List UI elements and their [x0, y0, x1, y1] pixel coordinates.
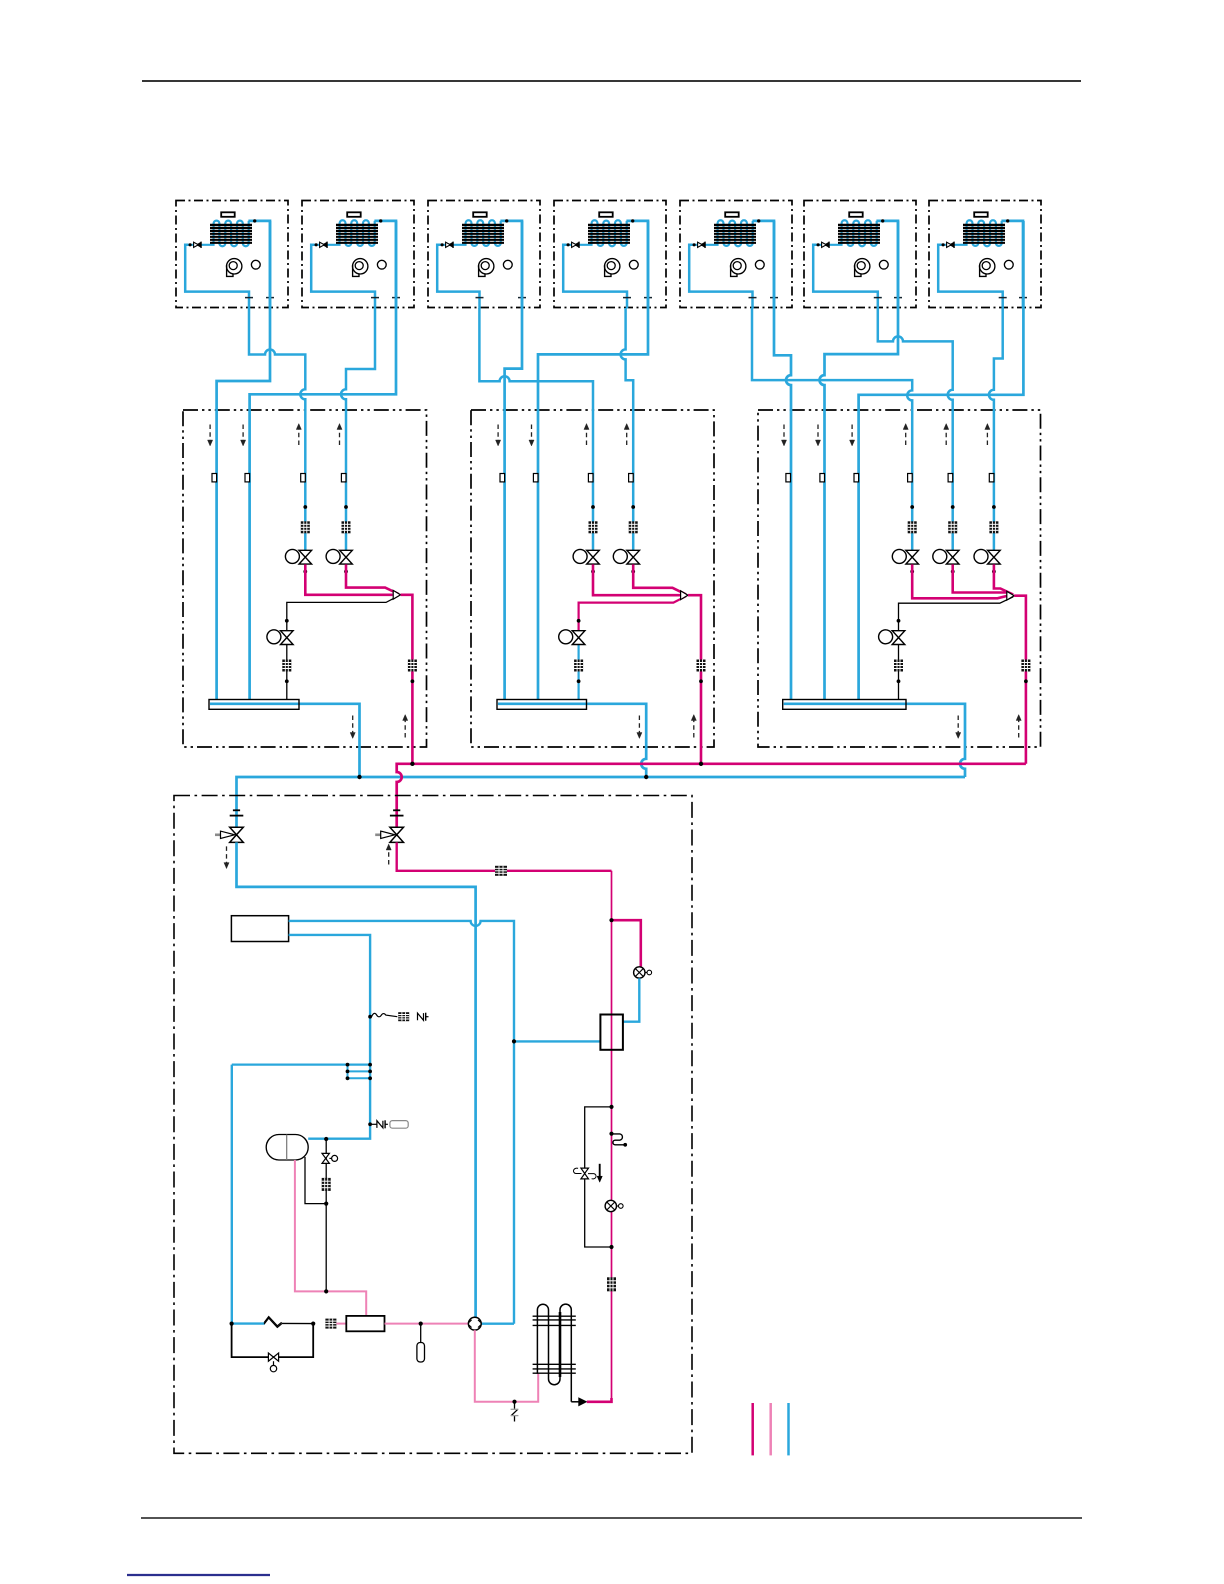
- BS unit 1 enclosure: [183, 410, 427, 747]
- IU6 sensor bulb: [879, 260, 888, 269]
- BS2 electronic expansion valves: [573, 549, 639, 564]
- subcooler bypass with injection EV: [612, 920, 641, 967]
- BS1 branch dots: [285, 619, 414, 683]
- subcooler plate heat exchanger: [600, 1015, 623, 1050]
- BS1 outlet flow arrows: [350, 715, 408, 739]
- suction connection from subcooler: [514, 1040, 600, 1042]
- indoor unit 2 liquid line to BS1 EV port: [341, 308, 375, 551]
- IU3 gas-pipe joint dot: [505, 219, 508, 222]
- IU6 liquid pipe (coil outlet to unit bottom): [813, 245, 878, 309]
- main liquid line (magenta vertical): [611, 871, 613, 1400]
- IU1 electronic expansion valve: [189, 242, 202, 248]
- pipe from cooling box to suction heat exchanger: [289, 935, 371, 1139]
- legend line (high/low pressure gas): [751, 1403, 754, 1455]
- IU1 gas-pipe joint dot: [253, 219, 256, 222]
- IU7 fan: [980, 259, 995, 277]
- IU5 sensor bulb: [755, 260, 764, 269]
- indoor unit 1 enclosure: [176, 201, 288, 308]
- relief valve on bypass: [573, 1168, 596, 1179]
- IU5 thermistor sensor: [725, 212, 739, 217]
- high/low pressure line from stop valve: [397, 842, 612, 870]
- page top rule: [142, 80, 1081, 82]
- IU7 thermistor sensor: [974, 212, 988, 217]
- BS2 heat exchanger shell: [497, 700, 587, 710]
- IU2 heat-exchanger coil tube: [315, 220, 375, 246]
- indoor unit 7 gas line to BS3 port 3: [859, 221, 1024, 701]
- indoor unit 3 enclosure: [428, 201, 540, 308]
- BS1 strainers on EV branches: [301, 521, 351, 533]
- IU7 flare joints: [999, 297, 1007, 299]
- indoor unit 2 enclosure: [302, 201, 414, 308]
- BS unit 3 enclosure: [758, 410, 1041, 747]
- BS2 EV outlet line (port4): [633, 564, 686, 594]
- IU6 thermistor sensor: [849, 212, 863, 217]
- BS3 subcool circuit valve: [879, 630, 905, 645]
- IU5 liquid pipe (coil outlet to unit bottom): [689, 245, 752, 309]
- BS2 branch dots: [577, 619, 703, 683]
- IU6 gas pipe (coil top to unit bottom): [876, 221, 898, 309]
- compressor suction flexible joint: [264, 1317, 282, 1326]
- indoor unit 4 liquid line to BS2 EV port: [621, 308, 634, 551]
- coil outlet check valve: [571, 1398, 587, 1406]
- IU1 liquid pipe (coil outlet to unit bottom): [185, 245, 249, 309]
- IU4 gas pipe (coil top to unit bottom): [626, 221, 648, 309]
- IU3 gas pipe (coil top to unit bottom): [500, 221, 522, 309]
- indoor unit 5 enclosure: [680, 201, 792, 308]
- BS2 suction return line lower: [577, 638, 579, 700]
- IU2 gas-pipe joint dot: [379, 219, 382, 222]
- BS2 junction dots: [591, 505, 635, 573]
- BS3 strainers on EV branches: [908, 521, 999, 533]
- strainer on high/low pressure line: [495, 866, 507, 876]
- BS3 flow arrows at inlet ports: [781, 424, 990, 447]
- legend line (suction gas): [787, 1403, 790, 1455]
- IU1 fan: [227, 259, 242, 277]
- IU4 coil fins: [588, 225, 630, 243]
- BS3 EV outlet line (port6): [994, 564, 1013, 594]
- IU3 heat-exchanger coil tube: [441, 220, 501, 246]
- BS1 riser strainer: [408, 660, 417, 672]
- BS2 mixing arrow: [681, 591, 688, 600]
- IU4 sensor bulb: [629, 260, 638, 269]
- BS2 suction gas outlet to trunk: [498, 704, 646, 777]
- BS3 junction dots: [910, 505, 996, 573]
- IU5 coil fins: [714, 225, 756, 243]
- BS1 double-tube heat exchanger: [209, 700, 299, 710]
- indoor unit 5 gas line to BS3 port 1: [774, 221, 791, 701]
- IU3 liquid pipe (coil outlet to unit bottom): [437, 245, 479, 309]
- BS3 high/low pressure gas riser: [1014, 596, 1026, 764]
- IU7 electronic expansion valve: [942, 242, 955, 248]
- service port with cap on suction drop: [370, 1120, 408, 1128]
- IU2 liquid pipe (coil outlet to unit bottom): [311, 245, 375, 309]
- BS2 flow arrows at inlet ports: [496, 424, 630, 447]
- suction service bypass loop: [232, 1324, 314, 1372]
- trunk junction dots: [357, 762, 703, 780]
- BS2 field pipe connectors: [500, 474, 633, 482]
- four-way valve right port connection: [475, 1322, 514, 1324]
- BS2 strainers on EV branches: [589, 521, 638, 533]
- indoor unit 7 liquid line to BS3 EV port: [989, 308, 1003, 551]
- IU5 gas-pipe joint dot: [757, 219, 760, 222]
- four-way valve: [468, 1317, 481, 1330]
- BS1 field pipe connectors: [212, 474, 346, 482]
- BS2 subcool circuit strainer: [574, 660, 583, 672]
- BS3 suction return line to subcooler: [899, 597, 1014, 700]
- IU6 fan: [855, 259, 870, 277]
- compressor: [346, 1316, 384, 1331]
- IU3 sensor bulb: [503, 260, 512, 269]
- liquid line bottom run (to main liquid riser): [587, 1398, 612, 1402]
- IU4 thermistor sensor: [599, 212, 613, 217]
- suction double-tube heat exchanger: [232, 1063, 372, 1081]
- IU2 flare joints: [371, 297, 379, 299]
- oil return line (pink) to compressor: [295, 1160, 366, 1316]
- IU4 electronic expansion valve: [567, 242, 580, 248]
- IU7 heat-exchanger coil tube: [942, 220, 1002, 246]
- indoor unit 4 enclosure: [554, 201, 666, 308]
- IU4 heat-exchanger coil tube: [567, 220, 627, 246]
- pipe from cooling box to four-way valve (with crossover): [289, 921, 514, 1324]
- IU3 flare joints: [476, 297, 484, 299]
- BS3 EV outlet line (port5): [953, 564, 1007, 592]
- IU4 fan: [605, 259, 620, 277]
- indoor unit 1 liquid line to BS1 EV port: [249, 308, 305, 551]
- indoor unit 6 enclosure: [804, 201, 916, 308]
- indoor unit 1 gas line to BS1 port 1: [217, 221, 270, 701]
- BS2 EV outlet line (port3): [593, 564, 680, 595]
- high pressure sensor branch: [417, 1324, 425, 1362]
- IU2 sensor bulb: [377, 260, 386, 269]
- IU2 electronic expansion valve: [315, 242, 328, 248]
- BS1 EV outlet line (port4): [346, 564, 399, 594]
- suction line down to compressor: [232, 1065, 265, 1324]
- BS1 electronic expansion valves: [285, 549, 352, 564]
- BS2 high/low pressure gas riser: [688, 595, 701, 764]
- BS2 outlet flow arrows: [637, 715, 697, 739]
- BS2 riser strainer: [697, 660, 706, 672]
- oil solenoid branch from dome: [305, 1139, 326, 1291]
- BS3 mixing arrow: [1007, 591, 1014, 600]
- BS1 heat exchanger shell: [209, 700, 299, 710]
- oil line strainer: [322, 1178, 331, 1191]
- indoor unit 6 liquid line to BS3 EV port: [878, 308, 953, 551]
- BS3 field pipe connectors: [786, 474, 994, 482]
- IU6 coil fins: [838, 225, 880, 243]
- IU2 coil fins: [336, 225, 378, 243]
- injection EV valve: [634, 967, 652, 978]
- outdoor heat exchanger coil: [533, 1304, 576, 1402]
- outdoor circuit junction dots: [230, 918, 614, 1404]
- IU6 flare joints: [874, 297, 882, 299]
- IU3 thermistor sensor: [473, 212, 487, 217]
- BS1 junction dots: [303, 505, 348, 573]
- BS1 suction gas outlet to trunk: [210, 704, 360, 777]
- legend line (discharge gas): [769, 1403, 772, 1455]
- IU7 liquid pipe (coil outlet to unit bottom): [938, 245, 1003, 309]
- BS1 suction return line to subcooler: [287, 596, 399, 700]
- BS1 high/low pressure gas riser: [401, 595, 413, 764]
- main liquid EV: [605, 1200, 623, 1211]
- IU5 fan: [731, 259, 746, 277]
- BS1 EV outlet line (port3): [305, 564, 392, 594]
- IU6 electronic expansion valve: [817, 242, 830, 248]
- indoor unit 4 gas line to BS2 port 2: [538, 221, 648, 701]
- suction gas trunk line: [237, 777, 966, 828]
- IU5 flare joints: [749, 297, 757, 299]
- page bottom rule: [141, 1517, 1082, 1519]
- BS3 double-tube heat exchanger: [783, 700, 906, 710]
- check valve glyph on capillary branch: [418, 1013, 429, 1021]
- BS3 heat exchanger shell: [783, 700, 906, 710]
- indoor unit 3 liquid line to BS2 EV port: [479, 308, 593, 551]
- IU3 electronic expansion valve: [441, 242, 454, 248]
- indoor unit 6 gas line to BS3 port 2: [820, 221, 898, 701]
- BS3 outlet flow arrows: [956, 715, 1022, 739]
- relief flow arrow: [597, 1164, 602, 1182]
- IU4 flare joints: [623, 297, 631, 299]
- BS3 suction gas outlet to trunk: [784, 704, 965, 777]
- IU3 coil fins: [462, 225, 504, 243]
- high/low pressure gas trunk line: [397, 764, 1026, 828]
- indoor unit 5 liquid line to BS3 EV port: [752, 308, 912, 551]
- IU4 gas-pipe joint dot: [631, 219, 634, 222]
- IU6 gas-pipe joint dot: [881, 219, 884, 222]
- IU4 liquid pipe (coil outlet to unit bottom): [563, 245, 627, 309]
- IU1 flare joints: [245, 297, 253, 299]
- indoor unit 3 gas line to BS2 port 1: [505, 221, 522, 701]
- IU7 sensor bulb: [1004, 260, 1013, 269]
- suction line from stop valve to four-way valve: [237, 842, 476, 1317]
- IU1 heat-exchanger coil tube: [189, 221, 249, 247]
- BS1 flow arrows at inlet ports: [208, 424, 343, 447]
- BS2 subcool circuit valve: [559, 630, 585, 645]
- IU7 gas-pipe joint dot: [1006, 219, 1009, 222]
- IU2 thermistor sensor: [347, 212, 361, 217]
- flow arrow at stop valve x=396.7: [386, 844, 391, 865]
- stop valve (high/low pressure side): [375, 810, 403, 842]
- IU1 gas pipe (coil top to unit bottom): [248, 221, 270, 309]
- IU5 heat-exchanger coil tube: [693, 220, 753, 246]
- suction strainer at compressor: [325, 1319, 336, 1329]
- discharge line to four-way valve: [385, 1323, 469, 1325]
- capillary branch with strainer and check valve: [372, 1013, 398, 1017]
- capillary pigtail on liquid line: [612, 1134, 625, 1145]
- IU5 gas pipe (coil top to unit bottom): [752, 221, 774, 309]
- oil solenoid valve: [322, 1153, 338, 1163]
- BS3 subcool circuit strainer: [894, 660, 903, 672]
- indoor unit 2 gas line to BS1 port 2: [250, 221, 396, 701]
- BS1 mixing arrow: [393, 590, 400, 599]
- accumulator / oil separator dome: [266, 1135, 308, 1161]
- main liquid strainer: [607, 1277, 616, 1291]
- IU5 electronic expansion valve: [693, 242, 706, 248]
- BS1 subcool circuit valve: [267, 630, 293, 645]
- BS2 double-tube heat exchanger: [497, 700, 587, 710]
- four-way valve to outdoor coil (pink): [475, 1330, 538, 1402]
- BS unit 2 enclosure: [471, 410, 714, 747]
- BS2 suction return line upper part: [579, 596, 686, 637]
- injection line into subcooler: [623, 978, 639, 1022]
- liquid line service bypass with relief valve: [585, 1107, 612, 1247]
- footer link underline: [127, 1574, 270, 1576]
- IU1 coil fins: [210, 225, 252, 243]
- flow arrow at stop valve x=236.5: [224, 846, 229, 868]
- IU1 thermistor sensor: [221, 212, 235, 217]
- IU2 gas pipe (coil top to unit bottom): [374, 221, 396, 309]
- IU7 coil fins: [963, 225, 1005, 243]
- pipe strainer-to-compressor: [336, 1323, 346, 1325]
- IU7 gas pipe (coil top to unit bottom): [1001, 221, 1023, 309]
- IU3 fan: [479, 259, 494, 277]
- BS3 electronic expansion valves: [892, 549, 1000, 564]
- IU1 sensor bulb: [251, 260, 260, 269]
- outdoor unit enclosure: [174, 796, 692, 1454]
- BS3 branch dots: [897, 619, 1028, 683]
- BS3 EV outlet line (port4): [912, 564, 1007, 598]
- drain capillary below pink line: [511, 1402, 519, 1422]
- IU6 heat-exchanger coil tube: [817, 220, 877, 246]
- IU2 fan: [353, 259, 368, 277]
- stop valve (gas side): [215, 810, 243, 842]
- BS3 riser strainer: [1021, 660, 1030, 672]
- indoor unit 7 enclosure: [929, 201, 1041, 308]
- electronics cooling box: [231, 916, 288, 942]
- BS1 subcool circuit strainer: [282, 660, 291, 672]
